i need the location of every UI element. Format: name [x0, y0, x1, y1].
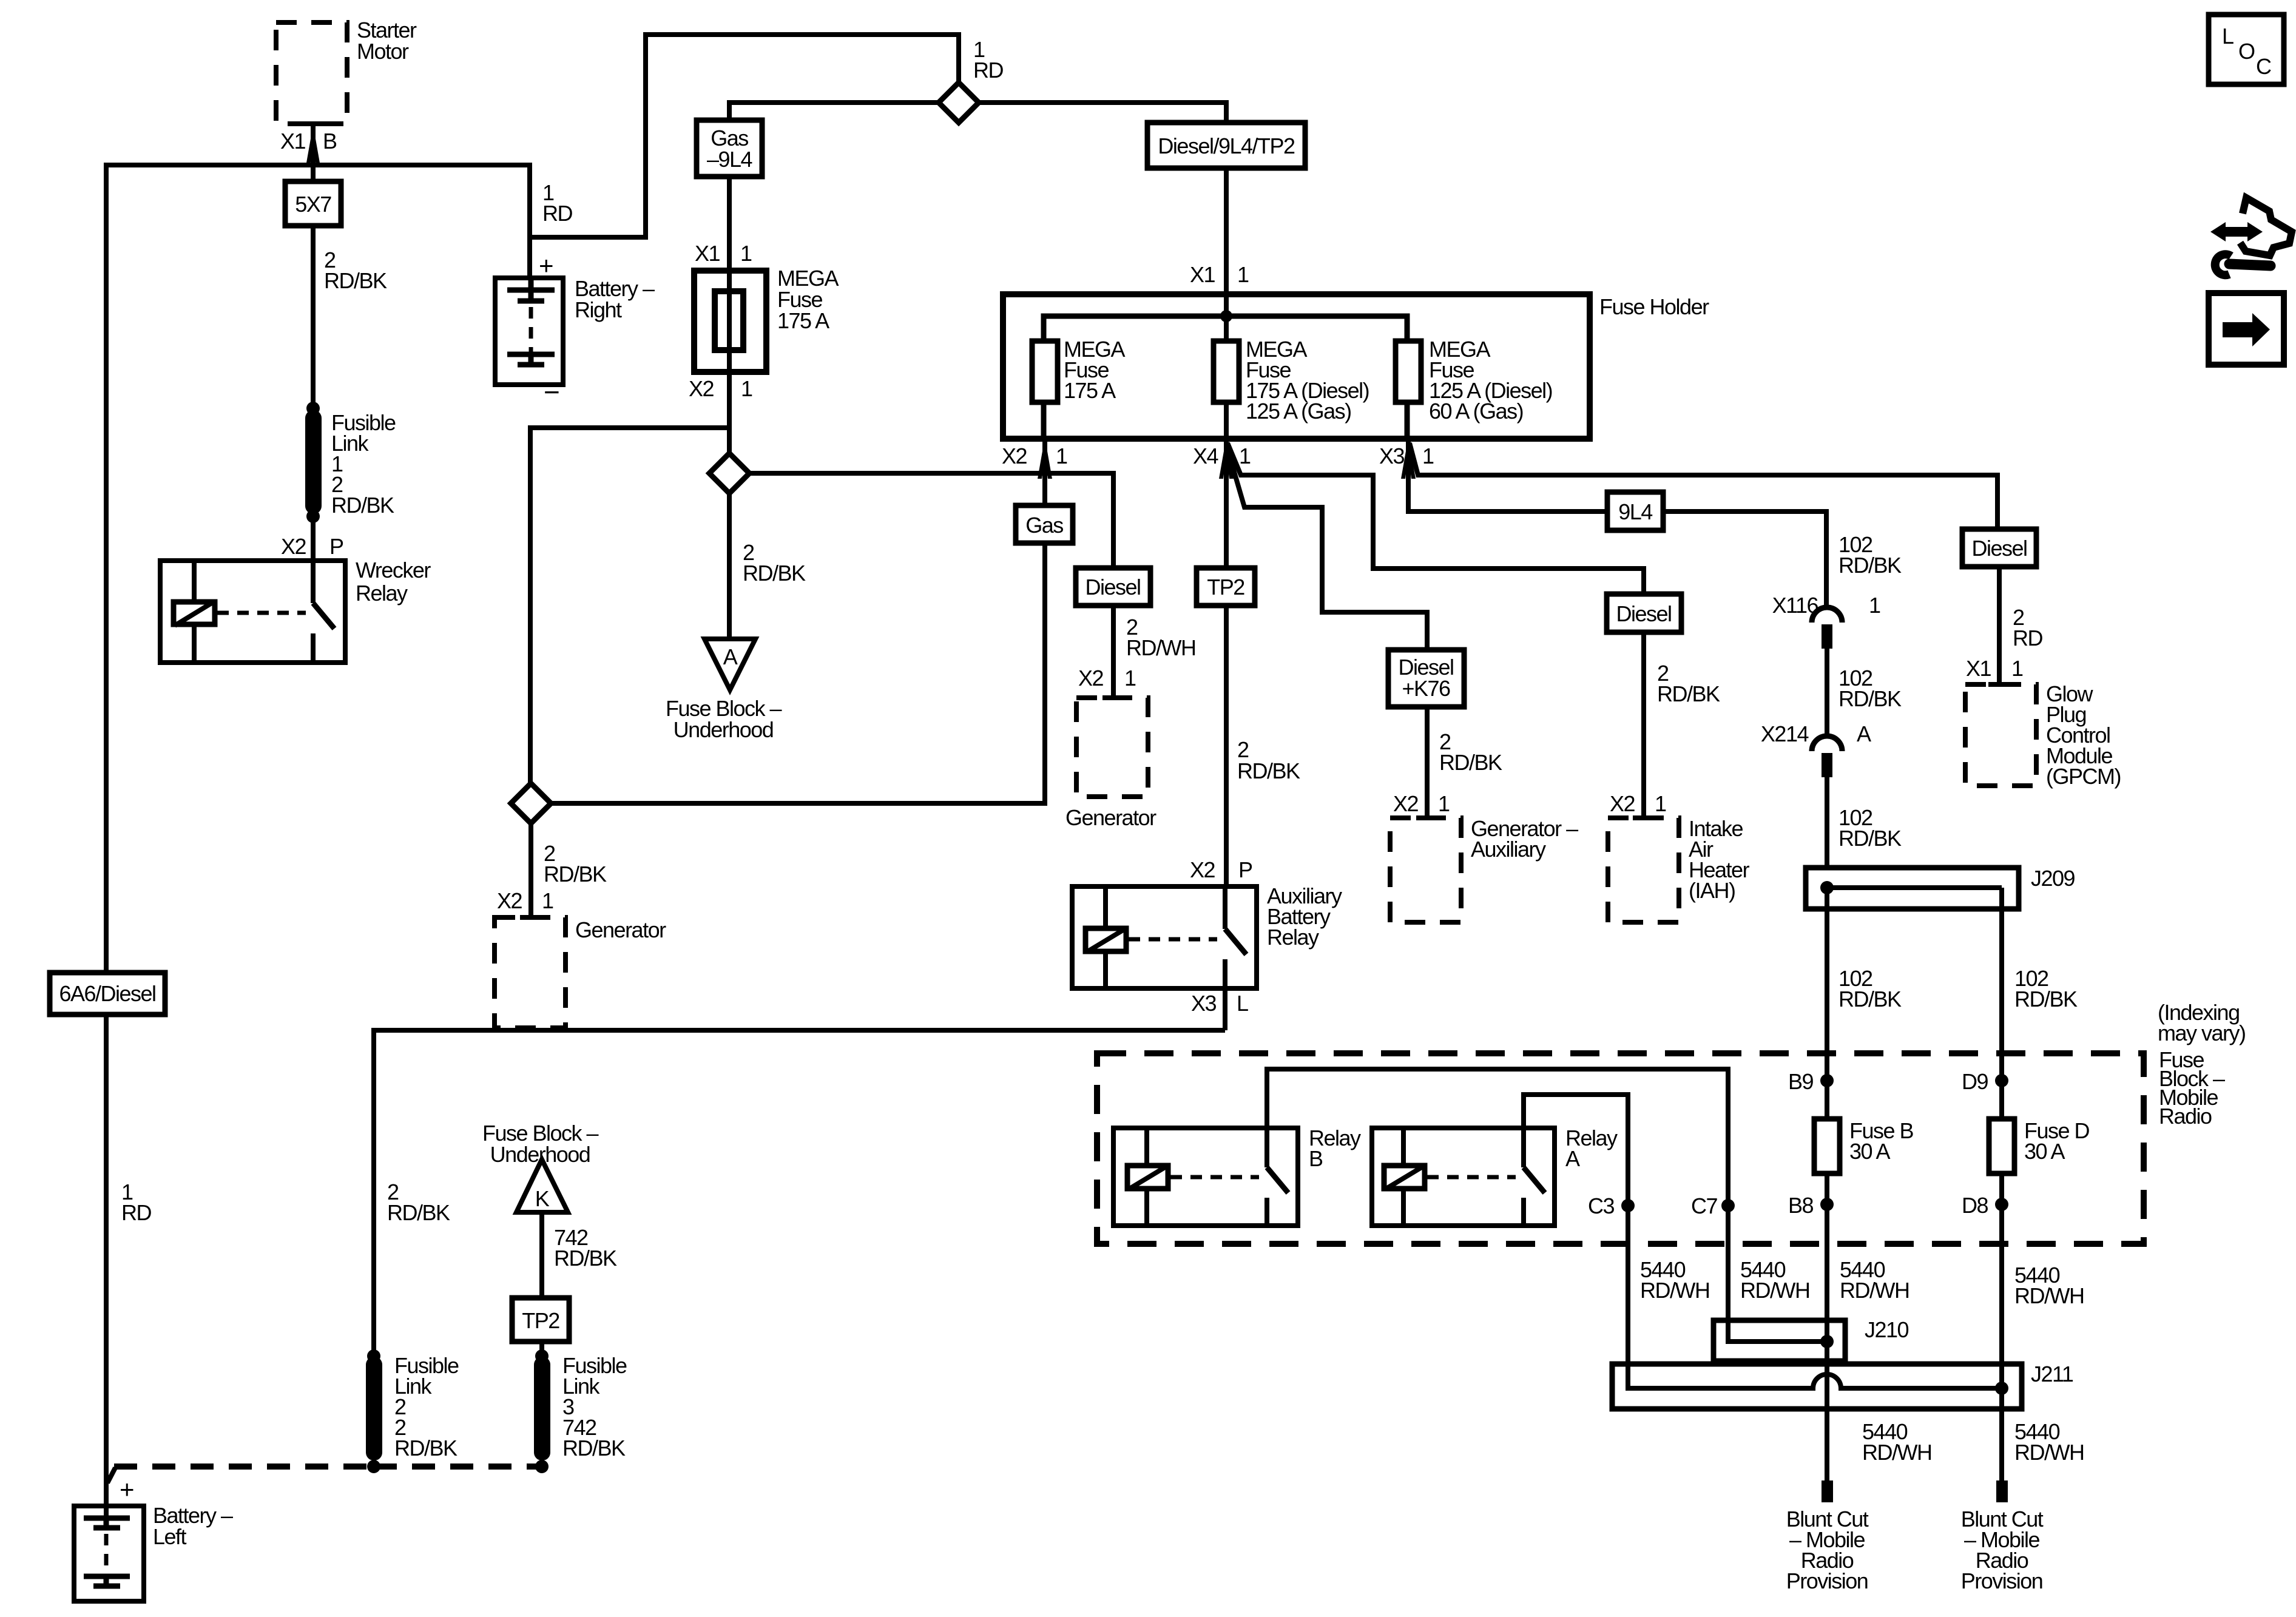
svg-text:X2: X2: [689, 376, 714, 401]
svg-text:1: 1: [1438, 791, 1450, 816]
svg-text:X2: X2: [1078, 666, 1104, 690]
relay B switch blade: [1267, 1167, 1288, 1193]
svg-text:TP2: TP2: [1207, 575, 1244, 599]
mega fuse 1 element: [1032, 341, 1058, 402]
fuse D: [1989, 1119, 2014, 1173]
forward section arrow icon: [2209, 293, 2284, 365]
wire K to TP2: [539, 1212, 544, 1298]
body repair icon (double arrow): [2210, 222, 2263, 241]
wire diesel+K76 to generator auxiliary: [1425, 707, 1430, 818]
svg-text:B: B: [323, 129, 337, 154]
aux relay coil: [1086, 928, 1126, 952]
svg-text:RD/BK: RD/BK: [324, 268, 387, 293]
svg-text:C3: C3: [1588, 1193, 1614, 1218]
mega fuse 3 element: [1396, 341, 1421, 402]
intake air heater IAH (dashed box): [1608, 818, 1679, 922]
svg-text:D9: D9: [1962, 1069, 1988, 1094]
junction dot: [306, 402, 320, 415]
svg-text:X1: X1: [1190, 262, 1215, 287]
aux relay lower contact: [1223, 959, 1227, 1030]
svg-text:P: P: [329, 534, 343, 559]
svg-text:J211: J211: [2031, 1362, 2073, 1386]
aux relay dashed actuator link: [1129, 937, 1217, 942]
svg-text:RD: RD: [2013, 626, 2042, 650]
svg-text:O: O: [2238, 39, 2255, 64]
relay A box: [1372, 1128, 1555, 1226]
wire X4 branch to IAH diesel: [1227, 443, 1644, 594]
wire J210 splice: [1728, 1320, 1827, 1342]
svg-text:6A6/Diesel: 6A6/Diesel: [59, 981, 155, 1006]
relay A coil feed: [1401, 1128, 1406, 1226]
wire aux relay X3 to fusible link 2: [374, 1030, 1225, 1356]
wire diamond right to diesel branch corner: [749, 473, 1113, 568]
svg-text:B8: B8: [1788, 1193, 1814, 1218]
wrecker relay dashed actuator link: [217, 611, 306, 615]
svg-text:1: 1: [740, 241, 752, 266]
connector diamond (generator splice): [511, 783, 551, 823]
svg-text:RD: RD: [542, 201, 572, 226]
svg-text:Gas: Gas: [1025, 513, 1063, 538]
mega fuse 175A (left): [694, 271, 766, 372]
svg-text:Generator: Generator: [575, 917, 666, 942]
fusible link 2: [366, 1357, 382, 1460]
svg-text:RD: RD: [973, 58, 1003, 83]
svg-text:RD/BK: RD/BK: [562, 1436, 626, 1460]
fuse B: [1814, 1119, 1840, 1173]
svg-text:K: K: [535, 1186, 550, 1211]
svg-text:RD/BK: RD/BK: [331, 493, 394, 518]
node D8: [1962, 1193, 2008, 1218]
wire diamond down to generator: [528, 823, 533, 917]
wire J209 to B9: [1825, 888, 1829, 1119]
svg-text:RD/WH: RD/WH: [2014, 1283, 2084, 1308]
svg-text:5X7: 5X7: [295, 192, 331, 217]
starter motor (dashed box): [276, 22, 347, 124]
wire X214 to J209: [1825, 773, 1829, 868]
node B9: [1788, 1069, 1834, 1094]
svg-text:1: 1: [542, 888, 553, 913]
in-line connector X214: [1812, 736, 1842, 777]
svg-text:30 A: 30 A: [2024, 1139, 2065, 1164]
wrecker relay lower contact stub: [311, 633, 316, 663]
wire fuse2 column: [1224, 316, 1229, 436]
wire battery-right column down to gas diamond: [528, 425, 533, 783]
svg-text:Auxiliary: Auxiliary: [1471, 837, 1546, 862]
wrecker relay switch blade: [313, 603, 334, 629]
svg-text:C: C: [2256, 54, 2272, 79]
svg-text:Relay: Relay: [1267, 925, 1319, 950]
fuse block mobile radio (dashed outline): [1097, 1053, 2144, 1244]
svg-text:Motor: Motor: [357, 39, 409, 64]
svg-text:9L4: 9L4: [1618, 499, 1652, 524]
svg-text:D8: D8: [1962, 1193, 1988, 1218]
wire diamond down to fuse block A: [727, 493, 732, 639]
wire diamond to Diesel/9L4/TP2: [979, 103, 1226, 316]
splice TP2 (X4 column): [1197, 568, 1255, 606]
node C3: [1588, 1193, 1635, 1218]
relay B coil: [1127, 1166, 1168, 1189]
svg-text:X1: X1: [695, 241, 720, 266]
blunt cut terminal (left): [1822, 1480, 1833, 1502]
splice Gas: [1016, 505, 1073, 543]
svg-text:X4: X4: [1193, 444, 1218, 468]
svg-text:RD/BK: RD/BK: [1838, 987, 1902, 1011]
svg-text:RD/WH: RD/WH: [1862, 1440, 1931, 1465]
svg-text:RD/BK: RD/BK: [1657, 681, 1720, 706]
connector diamond (top splice): [939, 83, 979, 123]
junction dot J211: [1995, 1382, 2008, 1395]
svg-text:Generator: Generator: [1065, 805, 1156, 830]
junction dot: [306, 510, 320, 523]
wire B8 column to blunt cut: [1825, 1173, 1829, 1480]
svg-text:P: P: [1238, 857, 1252, 882]
relay A lower contact stub: [1521, 1198, 1526, 1226]
connector arrow X4: [1219, 437, 1234, 479]
splice 6A6/Diesel: [50, 973, 165, 1014]
wrecker relay coil feed: [192, 561, 197, 663]
svg-text:Relay: Relay: [356, 581, 408, 606]
svg-text:RD/BK: RD/BK: [387, 1200, 450, 1225]
wire starter to 5X7: [311, 125, 316, 181]
auxiliary battery relay box: [1072, 886, 1257, 988]
wire TP2 to fusible link 3: [539, 1342, 544, 1356]
svg-text:X2: X2: [1610, 791, 1635, 816]
junction dot: [535, 1460, 549, 1473]
svg-text:Diesel/9L4/TP2: Diesel/9L4/TP2: [1158, 133, 1295, 158]
svg-text:L: L: [2222, 24, 2234, 49]
svg-text:–9L4: –9L4: [707, 147, 752, 172]
wire J209 to D9: [1999, 888, 2004, 1119]
wire relay B feed: [1267, 1069, 1728, 1320]
svg-text:Right: Right: [575, 297, 622, 322]
splice Diesel (GPCM branch): [1962, 529, 2036, 567]
wire J211 splice with hop: [1628, 1364, 2002, 1388]
connector arrow into starter X1-B: [306, 125, 320, 166]
svg-text:(GPCM): (GPCM): [2046, 764, 2121, 789]
svg-text:X2: X2: [1393, 791, 1419, 816]
fuse block underhood A triangle: [704, 639, 755, 690]
svg-text:1: 1: [1056, 444, 1067, 468]
svg-text:RD/BK: RD/BK: [1838, 553, 1902, 578]
svg-text:RD/BK: RD/BK: [743, 561, 806, 586]
svg-text:RD/BK: RD/BK: [2014, 987, 2078, 1011]
svg-text:RD/WH: RD/WH: [2014, 1440, 2084, 1465]
wire diesel to IAH: [1641, 632, 1646, 818]
svg-text:may vary): may vary): [2158, 1021, 2246, 1045]
svg-text:175 A: 175 A: [1064, 378, 1116, 403]
svg-text:−: −: [544, 376, 559, 408]
svg-text:Provision: Provision: [1961, 1568, 2043, 1593]
svg-text:TP2: TP2: [522, 1308, 559, 1333]
svg-text:A: A: [1565, 1146, 1580, 1171]
relay A dashed actuator link: [1427, 1175, 1516, 1180]
splice Diesel/9L4/TP2: [1147, 123, 1305, 168]
aux relay switch blade: [1225, 929, 1246, 954]
node C7: [1691, 1193, 1735, 1218]
splice Diesel +K76: [1388, 650, 1464, 707]
svg-text:X2: X2: [497, 888, 522, 913]
connector arrow X3: [1401, 437, 1416, 479]
splice Diesel (IAH branch): [1607, 594, 1681, 632]
svg-text:A: A: [723, 644, 738, 669]
svg-text:1: 1: [1124, 666, 1136, 690]
battery left: [74, 1506, 144, 1601]
svg-text:1: 1: [1422, 444, 1434, 468]
svg-text:1: 1: [2011, 656, 2023, 681]
wire X4 down to TP2 and aux relay: [1224, 437, 1229, 886]
body repair icon (panel outline): [2240, 198, 2292, 255]
svg-text:C7: C7: [1691, 1193, 1717, 1218]
wrecker relay box: [160, 561, 345, 663]
wire relay A feed: [1524, 1095, 1628, 1364]
blunt cut terminal (right): [1996, 1480, 2008, 1502]
svg-text:60 A (Gas): 60 A (Gas): [1429, 399, 1523, 424]
wire jog to top bus: [530, 35, 959, 237]
svg-text:RD/BK: RD/BK: [554, 1246, 617, 1271]
svg-text:+K76: +K76: [1402, 676, 1450, 701]
fusible link 3: [534, 1357, 550, 1460]
svg-text:RD/BK: RD/BK: [394, 1436, 458, 1460]
relay B lower contact stub: [1264, 1198, 1269, 1226]
svg-text:+: +: [120, 1475, 133, 1504]
svg-text:X1: X1: [280, 129, 306, 154]
fusible link 1: [305, 410, 322, 514]
wire 5X7 to wrecker relay: [311, 226, 316, 603]
relay A switch blade: [1524, 1167, 1545, 1193]
junction dot: [367, 1349, 380, 1363]
LOC legend box: [2209, 15, 2284, 84]
relay B dashed actuator link: [1170, 1175, 1259, 1180]
svg-text:RD/BK: RD/BK: [1439, 750, 1502, 775]
wrecker relay coil: [174, 602, 215, 626]
fuse block underhood K triangle: [516, 1160, 568, 1212]
splice Diesel (generator branch): [1076, 568, 1150, 606]
svg-text:X2: X2: [281, 534, 306, 559]
wire gas-9L4 to mega fuse to diamond: [727, 177, 732, 453]
node B8: [1788, 1193, 1834, 1218]
svg-text:Left: Left: [153, 1524, 187, 1549]
junction dot X1 feed: [1220, 310, 1232, 322]
wire X3 branch to GPCM diesel: [1410, 443, 1997, 529]
svg-text:J210: J210: [1865, 1317, 1909, 1342]
body repair icon (wrench): [2215, 254, 2271, 275]
fuse holder inner box: [1044, 316, 1407, 439]
connector diamond (fuse output splice): [709, 453, 749, 493]
junction dot: [535, 1349, 549, 1363]
svg-text:175 A: 175 A: [777, 308, 829, 333]
svg-text:A: A: [1857, 721, 1871, 746]
splice 5X7: [285, 181, 341, 226]
splice 9L4: [1607, 492, 1663, 530]
wire diesel to generator dashed box: [1111, 606, 1116, 698]
aux relay coil feed: [1103, 886, 1108, 988]
wire diamond to Gas-9L4: [729, 103, 939, 120]
svg-text:B: B: [1309, 1146, 1323, 1171]
svg-text:X2: X2: [1002, 444, 1027, 468]
node D9: [1962, 1069, 2008, 1094]
svg-text:RD: RD: [121, 1200, 151, 1225]
relay B coil feed: [1144, 1128, 1149, 1226]
svg-text:L: L: [1237, 991, 1248, 1016]
svg-text:1: 1: [1237, 262, 1249, 287]
junction block J211: [1612, 1364, 2022, 1409]
svg-text:RD/BK: RD/BK: [1838, 826, 1902, 851]
generator auxiliary (dashed box): [1390, 818, 1461, 922]
svg-text:X3: X3: [1379, 444, 1405, 468]
svg-text:Diesel: Diesel: [1085, 575, 1140, 599]
dashed jumper wire to battery left: [107, 1467, 542, 1483]
wire X4 branch to diesel +K76: [1227, 449, 1427, 650]
svg-text:X3: X3: [1191, 991, 1217, 1016]
svg-text:1: 1: [1655, 791, 1666, 816]
svg-text:1: 1: [1869, 593, 1880, 618]
wire X2 tee to battery-right column: [530, 425, 729, 430]
svg-text:X1: X1: [1966, 656, 1991, 681]
svg-text:X214: X214: [1761, 721, 1809, 746]
generator (dashed box, diesel): [1076, 698, 1148, 797]
junction block J210: [1714, 1320, 1845, 1361]
junction dot: [367, 1460, 380, 1473]
svg-text:RD/WH: RD/WH: [1840, 1278, 1909, 1303]
relay A coil: [1384, 1166, 1425, 1189]
svg-text:X2: X2: [1190, 857, 1215, 882]
svg-text:Underhood: Underhood: [674, 717, 774, 742]
svg-text:Provision: Provision: [1786, 1568, 1868, 1593]
in-line connector X116: [1812, 607, 1842, 649]
fuse holder outer box: [1003, 294, 1590, 439]
wire main horizontal bus y=272: [106, 163, 530, 167]
splice Gas -9L4: [697, 120, 762, 177]
svg-text:Diesel: Diesel: [1616, 601, 1671, 626]
battery right: [495, 278, 563, 385]
glow plug control module GPCM (dashed box): [1965, 684, 2036, 786]
generator (dashed box): [495, 917, 566, 1028]
svg-text:B9: B9: [1788, 1069, 1814, 1094]
mega fuse 2 element: [1214, 341, 1239, 402]
wire J209 splice bar: [1827, 885, 2002, 890]
splice TP2 (bottom): [512, 1298, 569, 1342]
svg-text:RD/WH: RD/WH: [1640, 1278, 1709, 1303]
wire X3 down to 9L4 line: [1408, 437, 1826, 609]
svg-text:RD/WH: RD/WH: [1740, 1278, 1809, 1303]
wire battery right riser: [527, 163, 532, 278]
svg-text:30 A: 30 A: [1849, 1139, 1891, 1164]
svg-text:RD/BK: RD/BK: [1237, 758, 1300, 783]
svg-text:+: +: [539, 251, 553, 280]
svg-text:Radio: Radio: [2159, 1104, 2212, 1129]
svg-text:1: 1: [1239, 444, 1251, 468]
relay B box: [1113, 1128, 1298, 1226]
wire left drop x=175 to battery left: [104, 163, 109, 1517]
svg-text:Wrecker: Wrecker: [356, 558, 431, 582]
svg-text:(IAH): (IAH): [1689, 878, 1735, 903]
junction dot J209: [1820, 881, 1834, 894]
svg-text:Fuse Holder: Fuse Holder: [1599, 294, 1709, 319]
svg-text:Diesel: Diesel: [1971, 536, 2027, 561]
wire diesel to GPCM: [1997, 567, 2002, 684]
wire D8 column to blunt cut: [1999, 1173, 2004, 1480]
svg-text:RD/BK: RD/BK: [544, 862, 607, 886]
svg-text:J209: J209: [2031, 866, 2075, 891]
wire X116 to X214: [1825, 644, 1829, 738]
connector arrow into fuse holder X2: [1038, 437, 1052, 479]
svg-text:RD/BK: RD/BK: [1838, 686, 1902, 711]
svg-text:125 A (Gas): 125 A (Gas): [1246, 399, 1351, 424]
junction block J209: [1806, 868, 2019, 909]
wire gas column: [551, 436, 1045, 803]
junction dot J210: [1820, 1335, 1834, 1348]
svg-text:1: 1: [741, 376, 752, 401]
svg-text:RD/WH: RD/WH: [1126, 635, 1195, 660]
